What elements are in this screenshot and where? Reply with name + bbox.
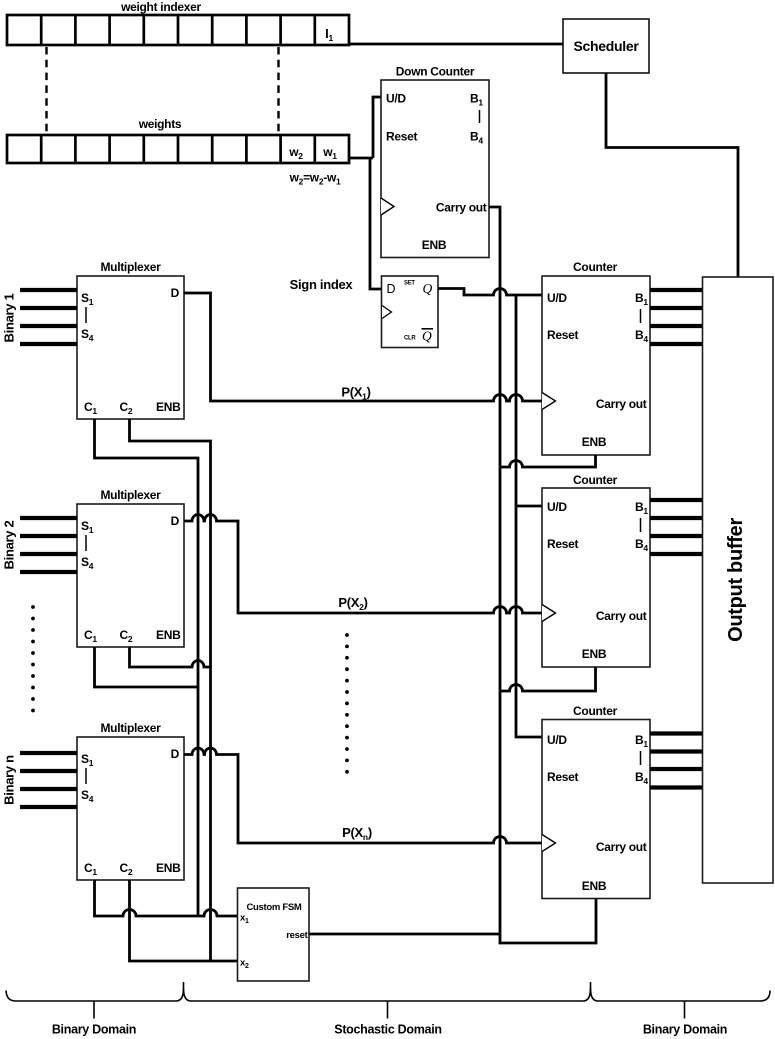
wire: Carry out line A down to reset bus and ENB of counter 3: [489, 207, 596, 943]
svg-text:Scheduler: Scheduler: [574, 38, 640, 54]
svg-text:Reset: Reset: [547, 770, 578, 784]
svg-text:Binary 2: Binary 2: [2, 520, 17, 569]
svg-text:D: D: [387, 282, 396, 296]
svg-text:ENB: ENB: [582, 435, 607, 449]
svg-text:Sign index: Sign index: [290, 277, 354, 292]
clock triangle counter 3: [542, 835, 556, 852]
clock triangle counter 2: [542, 605, 556, 622]
wire: w1 up to Down Counter U/D: [373, 97, 381, 158]
svg-text:ENB: ENB: [156, 400, 181, 414]
svg-text:Q: Q: [422, 329, 432, 344]
wire: Q output to counter 1 U/D with hop over line A: [438, 289, 542, 296]
wire: line B (sign) down to counters: [516, 295, 542, 737]
binary 2 input lines: [20, 518, 77, 572]
svg-text:P(Xn): P(Xn): [342, 825, 372, 842]
block: Output buffer: [703, 277, 774, 883]
svg-text:Counter: Counter: [573, 473, 618, 487]
wire: mux3 C2 + x2 wire to FSM: [130, 880, 238, 961]
binary n input lines: [20, 753, 77, 807]
brace: binary domain left: [6, 982, 184, 1001]
counter 2 output lines: [650, 500, 703, 554]
binary 1 input lines: [20, 290, 77, 344]
svg-text:D: D: [171, 747, 180, 761]
svg-text:Binary Domain: Binary Domain: [643, 1023, 727, 1037]
wire: mux2 C2 to C2 bus, hop over C1 bus: [130, 647, 211, 667]
block: Scheduler: [563, 19, 649, 73]
wire: Scheduler to Output buffer: [606, 73, 738, 279]
wire: I1 to Scheduler: [349, 43, 563, 46]
svg-text:Counter: Counter: [573, 704, 618, 718]
svg-text:Carry out: Carry out: [596, 609, 647, 623]
wire: FSM reset to line A: [309, 933, 500, 936]
block: Multiplexer 3: [77, 737, 184, 880]
dashed line right: [277, 47, 279, 135]
svg-text:Q: Q: [423, 281, 433, 296]
svg-text:Counter: Counter: [573, 260, 618, 274]
svg-text:Reset: Reset: [547, 328, 578, 342]
counter 1 output lines: [650, 290, 703, 344]
block: Counter 1: [542, 276, 650, 455]
svg-text:Output buffer: Output buffer: [725, 518, 747, 642]
svg-text:w2=w2-w1: w2=w2-w1: [289, 171, 341, 187]
svg-text:P(X2): P(X2): [338, 595, 367, 612]
svg-text:Multiplexer: Multiplexer: [100, 260, 161, 274]
clock triangle counter 1: [542, 393, 556, 410]
svg-text:Carry out: Carry out: [596, 840, 647, 854]
wire: mux1 D to P(X1) to counter 1 clock, hops over A and B: [184, 293, 542, 401]
svg-text:Binary 1: Binary 1: [2, 293, 17, 342]
wire: w1 out: [349, 157, 373, 160]
svg-text:Reset: Reset: [386, 130, 417, 144]
dashed line left: [45, 47, 47, 135]
svg-text:ENB: ENB: [582, 647, 607, 661]
svg-text:Carry out: Carry out: [596, 397, 647, 411]
dots column left: [31, 605, 35, 712]
clock triangle Down Counter: [381, 198, 394, 215]
register: weights row: [7, 135, 349, 163]
svg-text:Carry out: Carry out: [436, 201, 487, 215]
svg-text:weight indexer: weight indexer: [120, 0, 201, 14]
wire: line B branch to counter 2 U/D: [516, 505, 542, 508]
svg-text:U/D: U/D: [386, 92, 406, 106]
svg-text:P(X1): P(X1): [341, 385, 370, 402]
wire: counter 1 ENB to line A, hop over B: [500, 455, 596, 467]
svg-text:Stochastic Domain: Stochastic Domain: [334, 1023, 441, 1037]
wire: w1 down to D flip-flop D: [370, 158, 382, 289]
svg-text:U/D: U/D: [547, 733, 567, 747]
svg-text:ENB: ENB: [422, 238, 447, 252]
svg-text:ENB: ENB: [156, 861, 181, 875]
block: Multiplexer 2: [77, 504, 184, 647]
svg-text:SET: SET: [404, 281, 415, 287]
dots column middle: [345, 633, 349, 774]
brace: stochastic domain: [184, 982, 591, 1001]
wire: mux3 C1 + x1 wire to FSM, hop over mux3 C2 drop and C2 bus: [95, 880, 238, 916]
svg-text:Binary n: Binary n: [2, 755, 17, 805]
svg-text:D: D: [171, 286, 180, 300]
wire: counter 2 ENB to line A, hop over B: [500, 667, 596, 691]
wire: mux1 C2 down to C2 bus line: [130, 419, 211, 961]
register: weight indexer row: [7, 15, 349, 45]
block: Counter 3: [542, 720, 650, 899]
wire: mux3 D to P(Xn) to counter 3 clock, hops over C1,C2,A: [184, 748, 542, 843]
svg-text:ENB: ENB: [582, 879, 607, 893]
svg-text:CLR: CLR: [404, 336, 416, 342]
svg-text:ENB: ENB: [156, 628, 181, 642]
clock triangle D flip-flop: [382, 306, 392, 319]
svg-text:Reset: Reset: [547, 537, 578, 551]
svg-text:D: D: [171, 514, 180, 528]
block: Down Counter: [381, 80, 489, 258]
svg-text:weights: weights: [138, 117, 182, 131]
svg-text:U/D: U/D: [547, 291, 567, 305]
wire: mux1 C1 down to C1 bus line: [95, 419, 199, 916]
svg-text:Down Counter: Down Counter: [396, 65, 475, 79]
counter 3 output lines: [650, 734, 703, 788]
block: Custom FSM: [238, 888, 310, 981]
block: Multiplexer 1: [77, 276, 184, 419]
svg-text:Multiplexer: Multiplexer: [100, 488, 161, 502]
svg-text:U/D: U/D: [547, 500, 567, 514]
svg-text:Custom FSM: Custom FSM: [246, 902, 301, 913]
block: D flip-flop: [382, 276, 439, 348]
svg-text:Multiplexer: Multiplexer: [100, 721, 161, 735]
svg-text:reset: reset: [286, 930, 308, 941]
wire: mux2 D to P(X2) to counter 2 clock, hops over C1,C2,A,B: [184, 515, 542, 614]
brace: binary domain right: [591, 989, 771, 1002]
wire: mux2 C1 to C1 bus: [95, 647, 199, 687]
block: Counter 2: [542, 488, 650, 667]
svg-text:Binary Domain: Binary Domain: [52, 1023, 136, 1037]
